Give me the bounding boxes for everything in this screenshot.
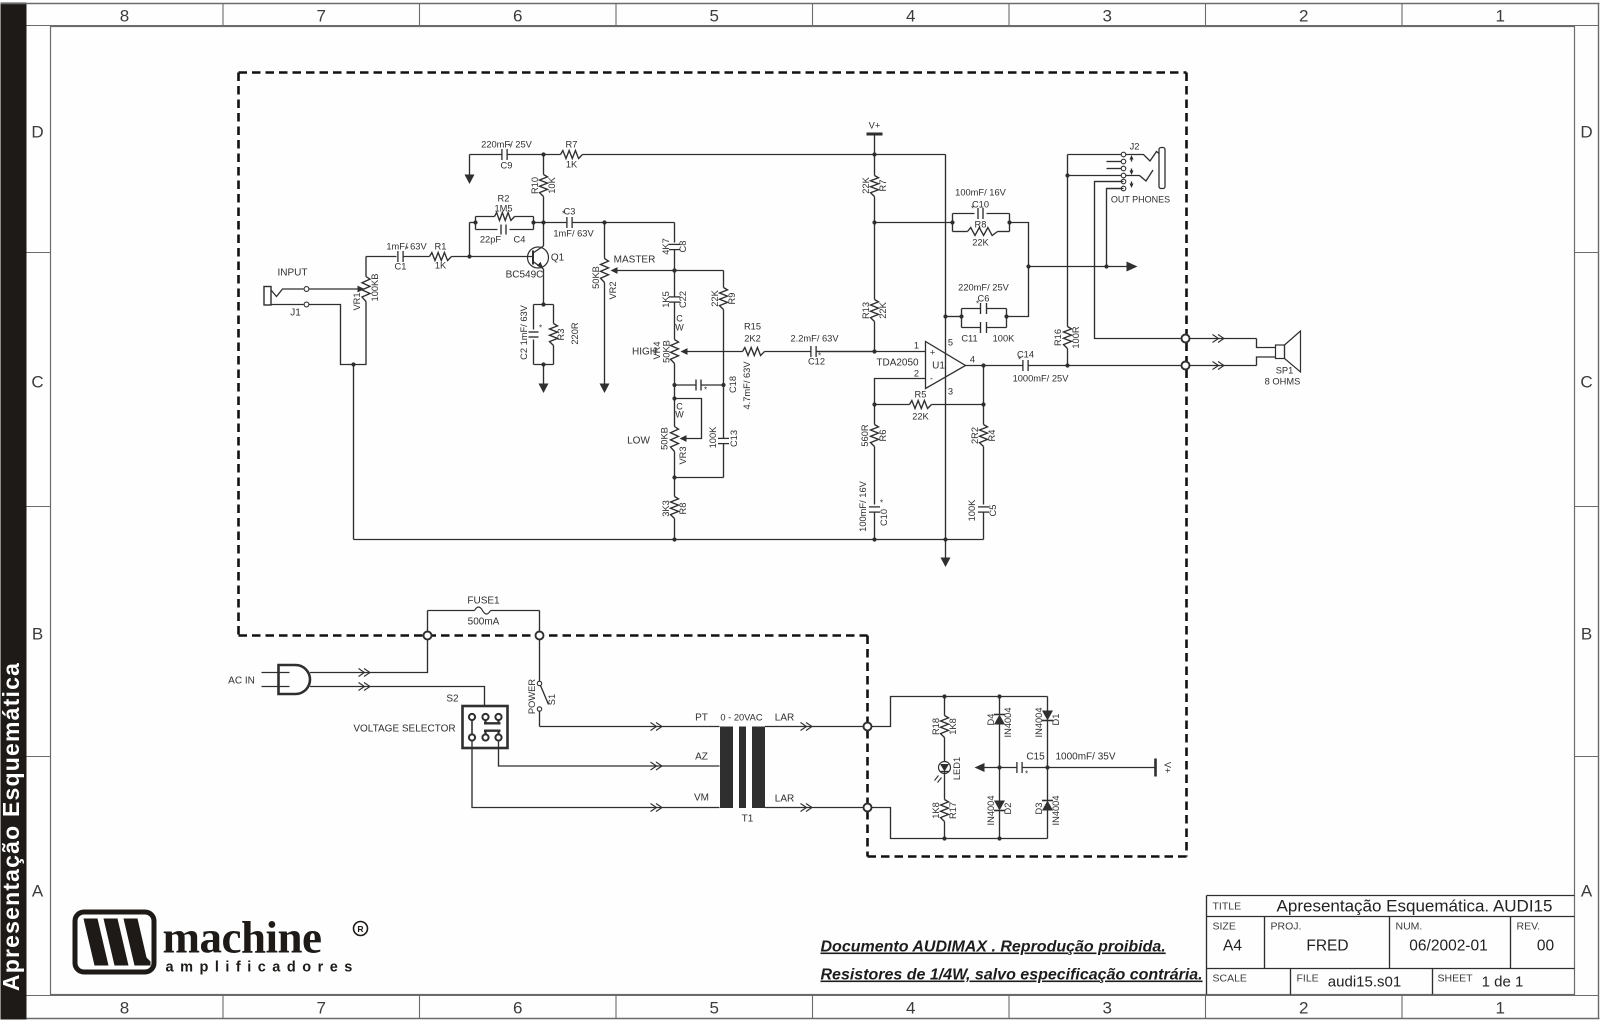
resistor R4 2R2 bbox=[970, 366, 997, 505]
wire: output node bbox=[966, 363, 1023, 367]
svg-text:FILE: FILE bbox=[1297, 973, 1319, 985]
capacitor C1 1mF/63V bbox=[386, 242, 427, 272]
svg-text:2: 2 bbox=[1299, 7, 1308, 26]
svg-text:+: + bbox=[930, 348, 935, 358]
svg-text:1K8: 1K8 bbox=[948, 718, 958, 735]
svg-text:100mF/ 16V: 100mF/ 16V bbox=[858, 480, 868, 531]
wire: phones feed with arrow bbox=[1029, 262, 1138, 272]
potentiometer VR3 50KB (LOW) with CW loop bbox=[627, 399, 701, 480]
svg-text:100K: 100K bbox=[967, 499, 977, 522]
svg-text:100KB: 100KB bbox=[370, 274, 380, 302]
svg-text:2R2: 2R2 bbox=[970, 427, 980, 444]
svg-text:R2: R2 bbox=[498, 194, 510, 204]
V+ supply symbol bbox=[867, 121, 883, 157]
capacitor C10 100mF/16V (lower) bbox=[858, 480, 889, 541]
svg-text:C13: C13 bbox=[729, 430, 739, 447]
svg-text:22K: 22K bbox=[912, 412, 929, 422]
svg-text:R7: R7 bbox=[566, 140, 578, 150]
wire: Q1 emitter bbox=[543, 269, 545, 305]
capacitor C3 1mF/63V bbox=[544, 207, 607, 239]
wire: rectifier top rail bbox=[871, 694, 1047, 726]
svg-text:IN4004: IN4004 bbox=[1051, 796, 1061, 826]
capacitor C18 4.7mF/63V bbox=[675, 361, 753, 410]
svg-text:00: 00 bbox=[1537, 938, 1555, 955]
svg-text:22K: 22K bbox=[972, 238, 989, 248]
svg-text:LAR: LAR bbox=[775, 713, 794, 724]
svg-text:C4: C4 bbox=[514, 235, 526, 245]
svg-text:1 de 1: 1 de 1 bbox=[1482, 974, 1524, 991]
svg-text:R8: R8 bbox=[678, 503, 688, 515]
svg-text:C15: C15 bbox=[1026, 752, 1045, 763]
svg-text:D3: D3 bbox=[1034, 803, 1044, 815]
wire: AC neutral to S2 bbox=[310, 683, 485, 706]
svg-text:REV.: REV. bbox=[1517, 921, 1541, 933]
svg-text:TDA2050: TDA2050 bbox=[876, 358, 919, 369]
resistor R15 2K2 bbox=[743, 322, 765, 356]
svg-text:4: 4 bbox=[970, 355, 975, 365]
resistor R17 1K8 bbox=[931, 774, 958, 839]
svg-text:C12: C12 bbox=[808, 357, 825, 367]
wire: J2 to phones feed bbox=[1107, 189, 1124, 267]
svg-text:*: * bbox=[880, 499, 883, 508]
svg-text:machine: machine bbox=[163, 913, 322, 963]
svg-text:R18: R18 bbox=[931, 718, 941, 735]
network C2 1mF/63V / R3 220R bbox=[519, 302, 580, 366]
ground bbox=[600, 384, 610, 394]
svg-text:500mA: 500mA bbox=[468, 617, 500, 628]
svg-text:R5: R5 bbox=[915, 390, 927, 400]
svg-text:C3: C3 bbox=[564, 207, 576, 217]
diode D2 IN4004 bbox=[986, 768, 1013, 839]
svg-text:V+: V+ bbox=[1163, 762, 1173, 773]
svg-text:1: 1 bbox=[1496, 999, 1505, 1018]
fuse FUSE1 500mA bbox=[424, 596, 544, 640]
svg-text:S2: S2 bbox=[446, 694, 459, 705]
svg-text:J1: J1 bbox=[290, 308, 301, 319]
svg-text:5: 5 bbox=[710, 999, 719, 1018]
transformer T1 bbox=[720, 713, 765, 825]
svg-text:C9: C9 bbox=[501, 161, 513, 171]
network C6 220mF/25V / C11 100K bbox=[943, 283, 1015, 344]
resistor R16 100R bbox=[1053, 155, 1081, 366]
top supply rail bbox=[470, 154, 946, 156]
bottom rail bbox=[354, 537, 984, 541]
svg-text:6: 6 bbox=[513, 7, 522, 26]
svg-text:220R: 220R bbox=[570, 322, 580, 345]
svg-text:BC549C: BC549C bbox=[506, 270, 544, 281]
wire: secondary LAR bottom bbox=[765, 794, 864, 812]
svg-text:A: A bbox=[32, 882, 44, 901]
svg-text:FRED: FRED bbox=[1306, 938, 1348, 955]
resistor R13 22K bbox=[861, 223, 888, 354]
resistor R9 22K bbox=[672, 268, 737, 385]
svg-text:1mF/ 63V: 1mF/ 63V bbox=[386, 242, 427, 252]
svg-text:1K5: 1K5 bbox=[661, 291, 671, 308]
svg-text:1000mF/ 35V: 1000mF/ 35V bbox=[1055, 752, 1115, 763]
svg-text:-: - bbox=[930, 374, 933, 384]
svg-text:3: 3 bbox=[1103, 999, 1112, 1018]
resistor R18 1K8 bbox=[931, 697, 958, 762]
svg-text:50KB: 50KB bbox=[591, 266, 601, 289]
svg-text:8 OHMS: 8 OHMS bbox=[1265, 377, 1301, 387]
LED1 bbox=[935, 757, 963, 783]
wire bbox=[404, 256, 430, 258]
svg-text:C18: C18 bbox=[728, 376, 738, 393]
resistor R7 1K (top) bbox=[561, 140, 583, 170]
svg-text:C10: C10 bbox=[879, 509, 889, 526]
resistor R10 10K bbox=[530, 152, 557, 222]
potentiometer VR4 50KB (HIGH) bbox=[632, 340, 688, 364]
svg-text:Resistores de 1/4W, salvo espe: Resistores de 1/4W, salvo especificação … bbox=[821, 967, 1203, 984]
wire: to R8/C10 network bbox=[875, 222, 953, 224]
svg-text:4.7mF/ 63V: 4.7mF/ 63V bbox=[742, 361, 752, 410]
capacitor C9 220mF/25V bbox=[481, 140, 532, 171]
svg-text:C6: C6 bbox=[978, 294, 990, 304]
svg-text:1M5: 1M5 bbox=[494, 204, 512, 214]
svg-text:3K3: 3K3 bbox=[661, 500, 671, 517]
wire: R1 to Q1 base bbox=[452, 254, 534, 258]
potentiometer VR1 100KB bbox=[352, 257, 380, 365]
capacitor C14 1000mF/25V bbox=[1013, 350, 1070, 384]
svg-text:VR2: VR2 bbox=[608, 281, 618, 299]
svg-text:220mF/ 25V: 220mF/ 25V bbox=[481, 140, 532, 150]
svg-text:2: 2 bbox=[914, 369, 919, 379]
svg-text:50KB: 50KB bbox=[660, 427, 670, 450]
svg-text:TITLE: TITLE bbox=[1213, 901, 1242, 913]
svg-text:1: 1 bbox=[1496, 7, 1505, 26]
wire: C3 node to tone column bbox=[605, 223, 675, 243]
capacitor C12 2.2mF/63V bbox=[790, 334, 839, 367]
wire: S2 to transformer VM bbox=[472, 741, 720, 812]
wire: V+ rail down to op-amp pin 5 / pin 3 column bbox=[943, 155, 947, 542]
svg-text:R13: R13 bbox=[861, 302, 871, 319]
svg-text:*: * bbox=[1025, 770, 1028, 779]
svg-text:NUM.: NUM. bbox=[1396, 921, 1423, 933]
svg-text:220mF/ 25V: 220mF/ 25V bbox=[958, 283, 1009, 293]
ground bbox=[941, 540, 951, 568]
svg-text:4K7: 4K7 bbox=[661, 238, 671, 255]
diode D4 IN4004 bbox=[986, 697, 1013, 768]
svg-text:1000mF/ 25V: 1000mF/ 25V bbox=[1013, 374, 1070, 384]
svg-text:V+: V+ bbox=[869, 121, 881, 131]
svg-text:INPUT: INPUT bbox=[278, 268, 308, 279]
capacitor C22 (1K5) bbox=[661, 271, 688, 340]
svg-text:C: C bbox=[1580, 373, 1592, 392]
svg-text:VR1: VR1 bbox=[352, 292, 362, 310]
wire: to V+ terminal bbox=[1022, 765, 1155, 769]
wire: Q1 collector bbox=[541, 220, 545, 246]
svg-text:A4: A4 bbox=[1223, 938, 1242, 955]
svg-text:06/2002-01: 06/2002-01 bbox=[1409, 938, 1487, 955]
svg-text:amplificadores: amplificadores bbox=[166, 960, 359, 976]
transistor Q1 BC549C bbox=[506, 246, 565, 281]
svg-text:Q1: Q1 bbox=[551, 253, 565, 264]
svg-text:100mF/ 16V: 100mF/ 16V bbox=[955, 188, 1006, 198]
resistor R8 3K3 bbox=[661, 478, 688, 540]
voltage selector S2 bbox=[353, 694, 507, 749]
capacitor C15 1000mF/35V bbox=[1017, 752, 1116, 779]
svg-text:4: 4 bbox=[906, 7, 915, 26]
svg-text:3: 3 bbox=[1103, 7, 1112, 26]
svg-text:SP1: SP1 bbox=[1276, 366, 1294, 376]
svg-text:IN4004: IN4004 bbox=[1003, 708, 1013, 738]
svg-text:R8: R8 bbox=[975, 220, 987, 230]
svg-text:50KB: 50KB bbox=[662, 340, 672, 363]
svg-text:100K: 100K bbox=[993, 334, 1016, 344]
svg-text:J2: J2 bbox=[1130, 142, 1140, 152]
resistor R5 22K (feedback) bbox=[875, 390, 986, 422]
svg-text:C10: C10 bbox=[972, 200, 989, 210]
svg-text:22K: 22K bbox=[710, 289, 720, 306]
svg-text:8: 8 bbox=[120, 999, 129, 1018]
wire: R8 network to output node bbox=[1007, 223, 1031, 317]
feedback network R2 1M5 / C4 22pF bbox=[470, 194, 544, 257]
svg-text:D: D bbox=[1580, 123, 1592, 142]
svg-text:1: 1 bbox=[914, 341, 919, 351]
svg-text:5: 5 bbox=[710, 7, 719, 26]
svg-text:W: W bbox=[675, 323, 684, 333]
board outline (dashed) bbox=[239, 73, 1187, 857]
wire: C12 to op-amp pin 1 bbox=[817, 351, 875, 353]
svg-text:LED1: LED1 bbox=[952, 757, 962, 780]
wire: to SP1 return bbox=[1189, 357, 1275, 370]
svg-text:5: 5 bbox=[948, 338, 953, 348]
svg-text:1mF/ 63V: 1mF/ 63V bbox=[553, 229, 594, 239]
svg-text:R9: R9 bbox=[727, 293, 737, 305]
capacitor C8 (4K7) bbox=[661, 238, 688, 272]
svg-text:IN4004: IN4004 bbox=[986, 796, 996, 826]
potentiometer VR2 50KB (MASTER) bbox=[591, 223, 675, 384]
svg-text:1K: 1K bbox=[435, 261, 447, 271]
svg-text:4: 4 bbox=[906, 999, 915, 1018]
V+ terminal bbox=[1156, 759, 1173, 777]
capacitor C13 (100K) bbox=[675, 385, 740, 478]
svg-text:1K8: 1K8 bbox=[931, 802, 941, 819]
svg-text:7: 7 bbox=[317, 999, 326, 1018]
svg-text:R10: R10 bbox=[530, 177, 540, 194]
wire: op-amp pin 1 input bbox=[817, 351, 926, 353]
jack J1 (INPUT) bbox=[264, 268, 309, 319]
svg-text:R3: R3 bbox=[556, 329, 566, 341]
wire: DC mid rail with ground arrow bbox=[975, 763, 1017, 772]
svg-text:2K2: 2K2 bbox=[744, 334, 761, 344]
svg-text:R16: R16 bbox=[1053, 329, 1063, 346]
svg-text:PT: PT bbox=[695, 713, 708, 724]
svg-text:OUT PHONES: OUT PHONES bbox=[1111, 195, 1170, 205]
svg-text:U1: U1 bbox=[932, 361, 945, 372]
svg-text:VM: VM bbox=[694, 793, 709, 804]
wire: J1 sleeve to bottom rail bbox=[309, 305, 367, 540]
svg-text:22pF: 22pF bbox=[480, 235, 502, 245]
svg-text:MASTER: MASTER bbox=[614, 255, 656, 266]
svg-text:PROJ.: PROJ. bbox=[1271, 921, 1302, 933]
svg-text:C11: C11 bbox=[961, 334, 977, 344]
node: rectifier in bottom bbox=[864, 804, 872, 812]
svg-text:B: B bbox=[32, 625, 43, 644]
svg-text:R15: R15 bbox=[744, 322, 761, 332]
svg-text:VOLTAGE SELECTOR: VOLTAGE SELECTOR bbox=[353, 724, 455, 735]
svg-text:LOW: LOW bbox=[627, 436, 650, 447]
svg-text:T1: T1 bbox=[742, 814, 754, 825]
svg-text:560R: 560R bbox=[860, 424, 870, 447]
svg-text:S1: S1 bbox=[547, 694, 557, 705]
wire: J2 to speaker line bbox=[1095, 182, 1183, 339]
ground bbox=[539, 365, 549, 394]
svg-text:IN4004: IN4004 bbox=[1034, 708, 1044, 738]
svg-text:D4: D4 bbox=[986, 714, 996, 726]
wire: VR4 wiper to R15 bbox=[688, 351, 743, 353]
diode D3 IN4004 bbox=[1034, 768, 1061, 839]
svg-text:C22: C22 bbox=[678, 291, 688, 308]
svg-text:2.2mF/ 63V: 2.2mF/ 63V bbox=[790, 334, 839, 344]
svg-text:SCALE: SCALE bbox=[1213, 973, 1247, 985]
svg-text:*: * bbox=[539, 324, 542, 333]
svg-text:SIZE: SIZE bbox=[1213, 921, 1236, 933]
svg-text:Documento AUDIMAX . Reprodução: Documento AUDIMAX . Reprodução proibida. bbox=[821, 939, 1166, 956]
speaker SP1 8 OHMS bbox=[1265, 331, 1301, 387]
wire: to SP1 bbox=[1189, 335, 1275, 348]
jack J2 (OUT PHONES) bbox=[1068, 142, 1171, 205]
wire: output line to SP node bbox=[1029, 363, 1183, 367]
svg-text:FUSE1: FUSE1 bbox=[467, 596, 500, 607]
svg-text:VR3: VR3 bbox=[678, 446, 688, 464]
svg-text:A: A bbox=[1581, 882, 1593, 901]
svg-text:6: 6 bbox=[513, 999, 522, 1018]
svg-text:AC IN: AC IN bbox=[228, 676, 255, 687]
svg-text:C1: C1 bbox=[395, 262, 407, 272]
svg-text:D: D bbox=[31, 123, 43, 142]
svg-text:VR4: VR4 bbox=[652, 341, 662, 359]
wire: VR1 top to R1 bbox=[366, 256, 397, 258]
svg-text:Apresentação Esquemática: Apresentação Esquemática bbox=[0, 662, 24, 991]
node: speaker + bbox=[1182, 335, 1190, 343]
op-amp U1 TDA2050 bbox=[876, 338, 975, 397]
network R8 22K / C10 100mF/16V bbox=[950, 188, 1011, 248]
svg-text:D2: D2 bbox=[1003, 803, 1013, 815]
svg-text:R: R bbox=[357, 924, 363, 934]
svg-text:100R: 100R bbox=[1071, 326, 1081, 349]
diode D1 IN4004 bbox=[1034, 697, 1061, 768]
svg-text:2: 2 bbox=[1299, 999, 1308, 1018]
svg-text:B: B bbox=[1581, 625, 1592, 644]
switch S1 (POWER) bbox=[527, 639, 557, 726]
ground bbox=[465, 155, 475, 185]
wire: AC line to fuse bbox=[310, 639, 428, 676]
svg-text:R1: R1 bbox=[435, 242, 447, 252]
svg-text:D1: D1 bbox=[1051, 714, 1061, 726]
svg-text:8: 8 bbox=[120, 7, 129, 26]
svg-text:C5: C5 bbox=[988, 505, 998, 517]
svg-text:R6: R6 bbox=[878, 430, 888, 442]
resistor R1 1K bbox=[430, 242, 452, 271]
svg-text:0 - 20VAC: 0 - 20VAC bbox=[720, 713, 762, 723]
svg-text:7: 7 bbox=[317, 7, 326, 26]
svg-text:*: * bbox=[704, 386, 707, 395]
resistor R7 22K (vertical) bbox=[861, 155, 888, 225]
capacitor C5 100K bbox=[967, 499, 998, 540]
AC IN connector bbox=[228, 665, 310, 694]
node: speaker - bbox=[1182, 362, 1190, 370]
svg-text:100K: 100K bbox=[708, 426, 718, 449]
svg-text:22K: 22K bbox=[861, 176, 871, 193]
svg-text:10K: 10K bbox=[547, 176, 557, 193]
svg-text:3: 3 bbox=[948, 387, 953, 397]
wire: S1 to transformer PT bbox=[540, 713, 720, 731]
svg-text:C: C bbox=[31, 373, 43, 392]
wire: J1 tip to VR1 wiper bbox=[309, 286, 365, 293]
wire: VR4 bottom bbox=[672, 364, 676, 401]
svg-text:Apresentação Esquemática. AUDI: Apresentação Esquemática. AUDI15 bbox=[1277, 897, 1553, 916]
wire bbox=[765, 351, 811, 353]
svg-text:R17: R17 bbox=[948, 802, 958, 819]
svg-text:R7: R7 bbox=[878, 180, 888, 192]
svg-text:POWER: POWER bbox=[527, 679, 537, 714]
svg-text:22K: 22K bbox=[878, 301, 888, 318]
svg-text:1K: 1K bbox=[566, 160, 578, 170]
svg-text:AZ: AZ bbox=[695, 752, 708, 763]
svg-text:C8: C8 bbox=[678, 241, 688, 253]
svg-text:C2 1mF/ 63V: C2 1mF/ 63V bbox=[519, 304, 529, 360]
wire: rectifier bottom rail bbox=[871, 808, 1047, 841]
svg-text:W: W bbox=[675, 410, 684, 420]
resistor R6 560R bbox=[860, 405, 888, 505]
wire: S2 to transformer AZ bbox=[499, 741, 720, 770]
svg-text:LAR: LAR bbox=[775, 794, 794, 805]
wire: op-amp pin 2 loop bbox=[872, 379, 925, 407]
svg-text:audi15.s01: audi15.s01 bbox=[1328, 974, 1401, 991]
wire: secondary LAR top bbox=[765, 713, 864, 731]
svg-text:SHEET: SHEET bbox=[1438, 973, 1474, 985]
node: rectifier in top bbox=[864, 723, 872, 731]
svg-text:C14: C14 bbox=[1017, 350, 1034, 360]
svg-text:R4: R4 bbox=[987, 430, 997, 442]
